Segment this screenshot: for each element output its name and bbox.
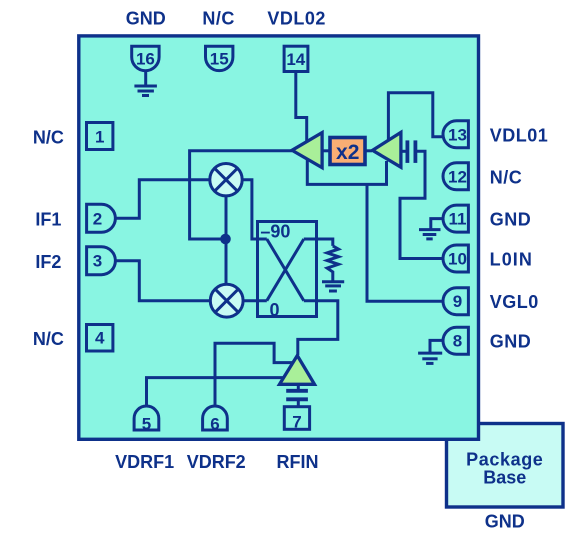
wire x2 to amp A1 apex <box>365 149 372 152</box>
wire pin 6 to RF amp <box>215 343 293 405</box>
svg-text:16: 16 <box>136 49 155 68</box>
package base (GND pad) <box>447 424 564 532</box>
right pin labels <box>490 125 549 351</box>
svg-text:8: 8 <box>453 331 462 350</box>
svg-text:L0IN: L0IN <box>490 249 533 269</box>
wire amp A2 bias to amp A1 bias <box>307 160 386 184</box>
wire pin 2 to mixer M1 <box>115 180 209 219</box>
resistor (termination) <box>327 246 338 282</box>
pin 14 (VDL02) <box>284 46 308 71</box>
svg-text:2: 2 <box>93 209 102 228</box>
pin 9 (VGL0) <box>443 288 468 315</box>
svg-text:VGL0: VGL0 <box>490 292 539 312</box>
bottom pin labels <box>115 452 318 472</box>
pin 5 (VDRF1) <box>134 406 159 433</box>
svg-text:–90: –90 <box>260 222 290 242</box>
pin 3 (IF2) <box>87 247 116 275</box>
junction dot (LO node) <box>220 234 231 245</box>
svg-text:0: 0 <box>269 300 279 320</box>
mixer M1 <box>210 164 242 196</box>
ground symbol (pin 16) <box>134 71 157 96</box>
svg-text:6: 6 <box>210 415 219 434</box>
wire bias tap to pin 9 <box>367 184 444 301</box>
svg-text:Package: Package <box>466 449 543 469</box>
pin 15 (N/C) <box>206 46 233 70</box>
wire amp A2 output stub to x2 <box>322 149 330 152</box>
svg-text:13: 13 <box>448 125 467 144</box>
left pin labels <box>33 127 64 349</box>
pin 7 (RFIN) <box>284 407 309 432</box>
pin 8 (GND) <box>443 327 468 354</box>
svg-text:GND: GND <box>490 331 532 351</box>
svg-text:N/C: N/C <box>33 329 64 349</box>
svg-text:N/C: N/C <box>202 9 235 29</box>
wire splitter 0 port to RF amp output <box>298 301 338 355</box>
svg-text:VDL02: VDL02 <box>267 9 326 29</box>
svg-text:GND: GND <box>485 512 525 532</box>
svg-text:RFIN: RFIN <box>277 452 319 472</box>
svg-text:7: 7 <box>292 413 301 432</box>
svg-text:4: 4 <box>95 329 105 348</box>
capacitor C2 (RF coupling) <box>286 385 308 407</box>
chip body <box>79 36 479 439</box>
phase splitter box (-90/0) <box>258 222 317 320</box>
wire mixer M1 to splitter -90 port <box>242 180 267 239</box>
svg-text:VDL01: VDL01 <box>490 125 549 145</box>
svg-text:12: 12 <box>448 167 467 186</box>
wire LO from amp A2 output to junction <box>190 151 292 239</box>
ground symbol (resistor) <box>322 282 344 291</box>
amp A2 (LO output amp) <box>292 133 322 168</box>
ground symbol (pin 8) <box>418 340 443 363</box>
pin 12 (N/C) <box>443 163 468 190</box>
pin 4 (N/C) <box>87 325 113 352</box>
frequency doubler x2 <box>330 138 365 165</box>
pin 6 (VDRF2) <box>203 406 228 433</box>
amp A1 (LO input amp) <box>373 132 401 167</box>
pin 2 (IF1) <box>87 204 116 232</box>
svg-text:x2: x2 <box>336 141 359 164</box>
wire capacitor C1 to pin 10 <box>400 151 444 258</box>
wire pin 14 to amp A2 supply <box>296 71 307 142</box>
svg-text:GND: GND <box>126 9 166 29</box>
wire LO vertical M1 to M2 <box>225 196 228 284</box>
wire pin 5 to RF amp <box>147 378 284 406</box>
svg-text:N/C: N/C <box>490 167 523 187</box>
svg-text:3: 3 <box>93 252 102 271</box>
capacitor C1 (LO coupling) <box>407 140 415 163</box>
svg-text:IF1: IF1 <box>35 210 61 230</box>
wire mixer M2 to splitter 0 port <box>243 299 266 302</box>
wire amp A1 supply to pin 13 <box>388 93 444 141</box>
pin 1 (N/C) <box>87 123 113 150</box>
pin 16 (GND) <box>132 46 159 71</box>
svg-text:1: 1 <box>95 127 104 146</box>
wire splitter to resistor <box>304 239 333 246</box>
svg-text:9: 9 <box>453 292 462 311</box>
pin 13 (VDL01) <box>443 121 468 148</box>
pin 10 (L0IN) <box>443 245 468 272</box>
pin 11 (GND) <box>443 205 468 232</box>
ground symbol (pin 11) <box>419 219 444 239</box>
svg-text:10: 10 <box>448 250 467 269</box>
svg-text:GND: GND <box>490 210 532 230</box>
svg-text:N/C: N/C <box>33 127 64 147</box>
mixer M2 <box>210 284 243 317</box>
wire pin 3 to mixer M2 <box>115 261 210 301</box>
wire amp A1 input stub <box>401 150 406 153</box>
svg-text:14: 14 <box>286 50 305 69</box>
svg-text:IF2: IF2 <box>35 252 61 272</box>
svg-text:VDRF1: VDRF1 <box>115 452 174 472</box>
svg-text:Base: Base <box>483 468 526 488</box>
svg-text:11: 11 <box>449 210 467 229</box>
amp A3 (RF input amp) <box>280 356 315 385</box>
svg-text:5: 5 <box>142 415 151 434</box>
svg-text:15: 15 <box>210 49 229 68</box>
svg-text:VDRF2: VDRF2 <box>187 452 246 472</box>
top pin labels <box>126 9 326 29</box>
